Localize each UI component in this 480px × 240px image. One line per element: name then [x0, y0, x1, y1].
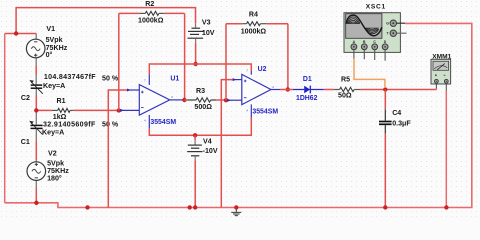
svg-text:V4: V4 [203, 137, 212, 145]
resistor R1 [36, 109, 52, 111]
svg-text:R2: R2 [145, 0, 154, 8]
svg-text:1000kΩ: 1000kΩ [138, 16, 164, 24]
svg-text:104.8437467fF: 104.8437467fF [44, 73, 96, 81]
wire R4 right leg down to U2 output [287, 24, 289, 90]
svg-text:3554SM: 3554SM [150, 119, 176, 126]
node V2 bottom [34, 201, 38, 205]
wire XMM1 minus terminal to bottom rail [445, 83, 447, 90]
svg-text:50Ω: 50Ω [338, 92, 352, 100]
resistor R5 [334, 89, 340, 91]
op-amp U1 3554SM [120, 75, 184, 129]
capacitor C1 (variable) [31, 125, 43, 128]
svg-text:G: G [386, 22, 389, 26]
wire top rail V1 to V3 [16, 8, 195, 34]
svg-text:0.3μF: 0.3μF [392, 119, 411, 127]
svg-text:5Vpk: 5Vpk [46, 36, 63, 44]
scope terminal stubs A B C D [353, 50, 355, 59]
wire V1 top horizontal [5, 33, 37, 35]
svg-text:XSC1: XSC1 [366, 4, 386, 11]
wire C1 to V2 [35, 129, 37, 141]
capacitor C4 [384, 90, 386, 110]
svg-text:C1: C1 [21, 138, 30, 146]
svg-text:3554SM: 3554SM [252, 109, 278, 116]
svg-text:U2: U2 [258, 66, 267, 73]
wire C2 to R1 node [35, 89, 37, 96]
wire scope G stub to right edge [397, 22, 406, 24]
svg-text:D1: D1 [303, 76, 312, 83]
node lone dot on bottom rail near V4 [188, 205, 192, 209]
wire scope T stub [397, 32, 407, 34]
wire R1 node to C1 [35, 112, 37, 125]
svg-text:V3: V3 [202, 19, 211, 27]
svg-text:50 %: 50 % [102, 121, 119, 129]
op-amp U2 3554SM [227, 71, 280, 118]
svg-text:4: 4 [246, 109, 248, 113]
svg-text:V1: V1 [46, 25, 55, 33]
svg-text:7: 7 [144, 79, 146, 83]
svg-text:4: 4 [144, 119, 146, 123]
resistor R3 [184, 99, 187, 101]
node lone dot on bottom rail left [85, 205, 89, 209]
wire D1 to R5 [324, 89, 335, 91]
svg-text:2: 2 [272, 85, 274, 89]
wire V1 to C2 [35, 34, 37, 40]
wire U2 output to D1 [280, 89, 293, 91]
svg-text:R1: R1 [57, 97, 66, 105]
wire U2 non-inverting input to ground rail [221, 80, 233, 208]
node U2 output / feedback [286, 87, 290, 91]
wire bottom rail with step and right edge up to scope G [5, 23, 472, 207]
wire V- rail U1 bottom to U2 bottom [149, 118, 251, 136]
node ground on bottom rail [234, 205, 238, 209]
ground symbol [231, 207, 241, 215]
svg-text:50 %: 50 % [102, 74, 119, 82]
node XMM1 ground [444, 205, 448, 209]
svg-text:1000kΩ: 1000kΩ [241, 27, 267, 35]
node U2 inverting input [224, 98, 228, 102]
battery V3 [195, 23, 197, 27]
node R1 right / U1 inverting input [117, 108, 121, 112]
svg-text:Key=A: Key=A [43, 82, 65, 90]
wire U1 non-inverting input to ground rail [108, 90, 127, 208]
wire XMM1 plus terminal to output node [435, 83, 437, 88]
wire V+ rail U1 top to U2 top [149, 64, 251, 75]
node V4 on V- rail [193, 133, 197, 137]
svg-text:R4: R4 [249, 10, 258, 18]
svg-text:R5: R5 [341, 76, 350, 84]
svg-text:7: 7 [246, 69, 248, 73]
node junction top-left [14, 31, 18, 35]
svg-text:180°: 180° [47, 174, 62, 182]
wire scope channel A to output node (orange) [354, 59, 385, 88]
resistor R4 [226, 23, 242, 25]
ac source V2 [27, 162, 46, 181]
svg-text:XMM1: XMM1 [432, 53, 451, 60]
wire R5 to XMM1 [361, 89, 437, 91]
svg-text:V2: V2 [48, 149, 57, 157]
svg-text:10V: 10V [202, 29, 215, 37]
svg-text:R3: R3 [196, 87, 205, 95]
wire R2 left leg down to inverting node [118, 13, 120, 110]
svg-text:500Ω: 500Ω [194, 103, 212, 111]
resistor R2 [119, 12, 139, 14]
wire R4 left leg down to U2 inverting node [225, 24, 227, 101]
node V4 bottom rail [193, 205, 197, 209]
node U1 output / feedback [182, 98, 186, 102]
svg-text:32.91405609fF: 32.91405609fF [43, 120, 96, 128]
wire V2 to bottom rail [35, 180, 37, 188]
multimeter XMM1 [431, 59, 451, 84]
ac source V1 [26, 39, 45, 58]
oscilloscope XSC1 [344, 13, 400, 53]
battery V4 [194, 135, 196, 140]
wire R2 right leg down to U1 output [184, 13, 186, 100]
svg-text:2: 2 [171, 95, 173, 99]
node R1 left [34, 108, 38, 112]
capacitor C2 (variable) [31, 85, 43, 88]
svg-text:C2: C2 [21, 94, 30, 102]
svg-text:0°: 0° [46, 51, 53, 59]
node C4 bottom rail [383, 205, 387, 209]
svg-text:-10V: -10V [203, 147, 218, 155]
svg-text:Key=A: Key=A [42, 129, 64, 137]
svg-text:U1: U1 [170, 75, 179, 82]
wire left edge down [4, 34, 6, 203]
svg-text:1DH62: 1DH62 [296, 95, 318, 102]
diode D1 1DH62 [293, 89, 324, 91]
node R5 / C4 / scope B [383, 87, 387, 91]
svg-text:C4: C4 [392, 109, 401, 117]
node V3 on V+ rail [193, 62, 197, 66]
